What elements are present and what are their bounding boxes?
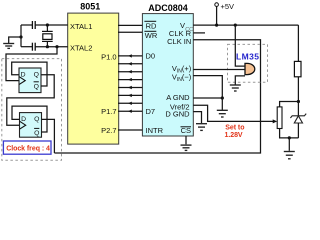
potentiometer wiper arrow xyxy=(273,119,278,123)
ground LM35 xyxy=(230,85,241,91)
8051 microcontroller U1 box xyxy=(68,13,119,144)
wire CS to ground xyxy=(185,136,187,144)
svg-text:D0: D0 xyxy=(146,52,156,61)
svg-text:XTAL2: XTAL2 xyxy=(70,44,92,53)
wire FF1 Q to FF2 clock xyxy=(7,75,54,125)
ground CS xyxy=(181,145,192,150)
wire D3 xyxy=(118,79,142,81)
wire A GND to ground xyxy=(221,98,223,110)
svg-text:8051: 8051 xyxy=(80,2,100,12)
svg-text:Q: Q xyxy=(34,116,39,123)
svg-text:1.28V: 1.28V xyxy=(225,132,243,139)
LM35 temperature sensor body xyxy=(245,63,255,74)
ADC0804 U2 box xyxy=(142,14,193,136)
crystal X1 xyxy=(42,25,53,47)
svg-text:CS: CS xyxy=(181,126,191,135)
wire to ground xyxy=(288,138,290,151)
dashed group box clock divider xyxy=(2,59,62,161)
wire D4 xyxy=(118,87,142,89)
ground analog xyxy=(217,110,228,117)
node crystal top junction xyxy=(46,23,49,26)
node XTAL2 tap junction xyxy=(55,45,58,48)
wire LM35 GND pin xyxy=(235,76,245,85)
wire A GND xyxy=(193,97,222,99)
svg-text:Q: Q xyxy=(34,71,39,78)
svg-text:RD: RD xyxy=(146,22,157,31)
wire FF2 Q to clock rail xyxy=(42,119,55,153)
wire FF2 feedback Qbar to D xyxy=(12,106,47,132)
wire pot bottom xyxy=(280,129,299,138)
wire D1 xyxy=(118,63,142,65)
svg-text:Set to: Set to xyxy=(225,124,244,131)
wire node to pot top xyxy=(280,102,299,107)
wire tap from XTAL2 to FF1 clock xyxy=(6,47,57,81)
+5V power symbol xyxy=(215,2,234,25)
node crystal bottom junction xyxy=(46,45,49,48)
wire left rail of caps xyxy=(20,25,22,47)
node LM35 supply tap junction xyxy=(234,24,237,27)
svg-text:P1.0: P1.0 xyxy=(101,52,116,61)
node VCC junction xyxy=(215,24,218,27)
wire RD 8051 to ADC xyxy=(118,24,142,26)
svg-text:CLK IN: CLK IN xyxy=(167,37,191,46)
svg-text:INTR: INTR xyxy=(146,126,164,135)
wire D2 xyxy=(118,71,142,73)
wire D GND to ground xyxy=(193,112,201,123)
svg-text:ADC0804: ADC0804 xyxy=(148,3,188,13)
capacitor C2 xyxy=(21,43,68,51)
node divider junction xyxy=(297,100,300,103)
svg-text:D GND: D GND xyxy=(165,109,190,118)
svg-text:XTAL1: XTAL1 xyxy=(70,22,92,31)
node rail ground tap xyxy=(19,35,22,38)
node A GND junction xyxy=(221,96,224,99)
wire FF1 feedback Qbar to D xyxy=(12,62,47,86)
wire resistor to node xyxy=(297,77,299,102)
wire VCC rail xyxy=(193,24,298,26)
svg-text:P1.7: P1.7 xyxy=(101,107,116,116)
wire +5V to LM35 Vs pin xyxy=(235,25,245,66)
wire Vin- to ground node xyxy=(193,76,222,98)
potentiometer RV1 body xyxy=(277,107,282,129)
data bus D0-D7 wires with arrows xyxy=(118,54,142,113)
wire D0 xyxy=(118,55,142,57)
svg-text:D: D xyxy=(21,71,26,78)
svg-text:Q: Q xyxy=(34,84,39,91)
wire +5V to resistor xyxy=(297,25,299,61)
zener diode D1 xyxy=(290,102,306,138)
svg-text:D: D xyxy=(21,116,26,123)
wire Vref/2 to potentiometer wiper xyxy=(193,105,273,121)
D flip-flop U3 xyxy=(19,68,41,93)
resistor R1 xyxy=(294,61,301,76)
svg-text:WR: WR xyxy=(145,31,158,40)
ground divider xyxy=(284,152,295,159)
wire WR 8051 to ADC xyxy=(118,31,142,33)
wire D5 xyxy=(118,94,142,96)
svg-text:D7: D7 xyxy=(146,107,156,116)
wire INTR P2.7 xyxy=(118,129,142,131)
wire D6 xyxy=(118,102,142,104)
ground crystal xyxy=(3,44,14,49)
svg-text:A GND: A GND xyxy=(166,93,190,102)
svg-text:Clock freq : 4: Clock freq : 4 xyxy=(6,145,50,152)
wire ground tap xyxy=(9,37,21,43)
svg-text:P2.7: P2.7 xyxy=(101,126,116,135)
ground digital xyxy=(196,124,207,131)
dashed box LM35 xyxy=(228,44,268,82)
svg-text:LM35: LM35 xyxy=(236,52,259,62)
wire D7 xyxy=(118,110,142,112)
svg-text:+5V: +5V xyxy=(221,2,235,11)
wire clock rail to CLK IN xyxy=(54,40,260,153)
capacitor C1 xyxy=(21,21,68,29)
node zener ground junction xyxy=(288,136,291,139)
svg-text:VIN(−): VIN(−) xyxy=(172,72,192,83)
svg-text:Q: Q xyxy=(34,130,39,137)
wire LM35 Vout to ADC Vin+ xyxy=(193,69,245,71)
D flip-flop U4 xyxy=(20,113,42,138)
wire CLK R stub xyxy=(193,32,205,34)
label box Clock freq : 4 xyxy=(3,141,51,154)
